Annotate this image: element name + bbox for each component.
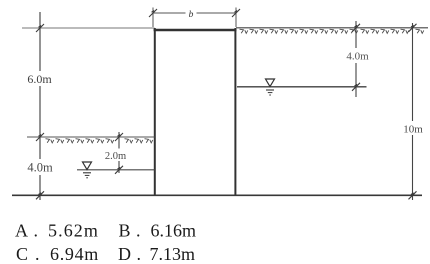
svg-text:.: . [34,221,39,241]
svg-text:5.62m: 5.62m [48,221,99,241]
wall U1: diaphragm wall right edge [234,28,236,195]
svg-text:2.0m: 2.0m [105,151,126,162]
wire: top reference line on excavation (left) side [22,27,155,29]
svg-text:.: . [35,244,40,264]
ground line left (excavation bottom) [27,137,155,143]
svg-text:4.0m: 4.0m [27,161,53,175]
water line left [77,169,155,171]
svg-text:6.94m: 6.94m [50,244,99,264]
svg-text:6.0m: 6.0m [27,72,52,86]
water table symbol left [83,162,92,178]
wall U1: diaphragm wall left edge [154,28,156,195]
dimension b (wall width) [149,8,240,28]
svg-text:7.13m: 7.13m [150,244,196,264]
svg-text:B: B [119,221,131,241]
svg-text:6.16m: 6.16m [151,221,197,241]
wall U1: diaphragm wall top edge [154,29,237,31]
answer option A [15,221,196,264]
water line right [237,86,367,88]
bottom line (wall base level) [12,194,422,196]
ground line right (natural ground) [236,28,428,34]
svg-text:.: . [136,221,141,241]
svg-text:4.0m: 4.0m [346,51,369,63]
dimension 2.0m (left water depth below excavation) [118,132,120,173]
svg-text:A: A [15,221,28,241]
dimension 10m right vertical line [412,23,414,200]
dimension 6.0m / 4.0m left vertical line [39,12,41,200]
svg-text:C: C [16,244,28,264]
svg-text:D: D [118,244,131,264]
svg-text:.: . [137,244,142,264]
dimension 4.0m right (water depth below ground) [355,21,357,97]
svg-text:b: b [189,10,194,20]
water table symbol right [266,79,275,95]
svg-text:10m: 10m [403,123,423,135]
